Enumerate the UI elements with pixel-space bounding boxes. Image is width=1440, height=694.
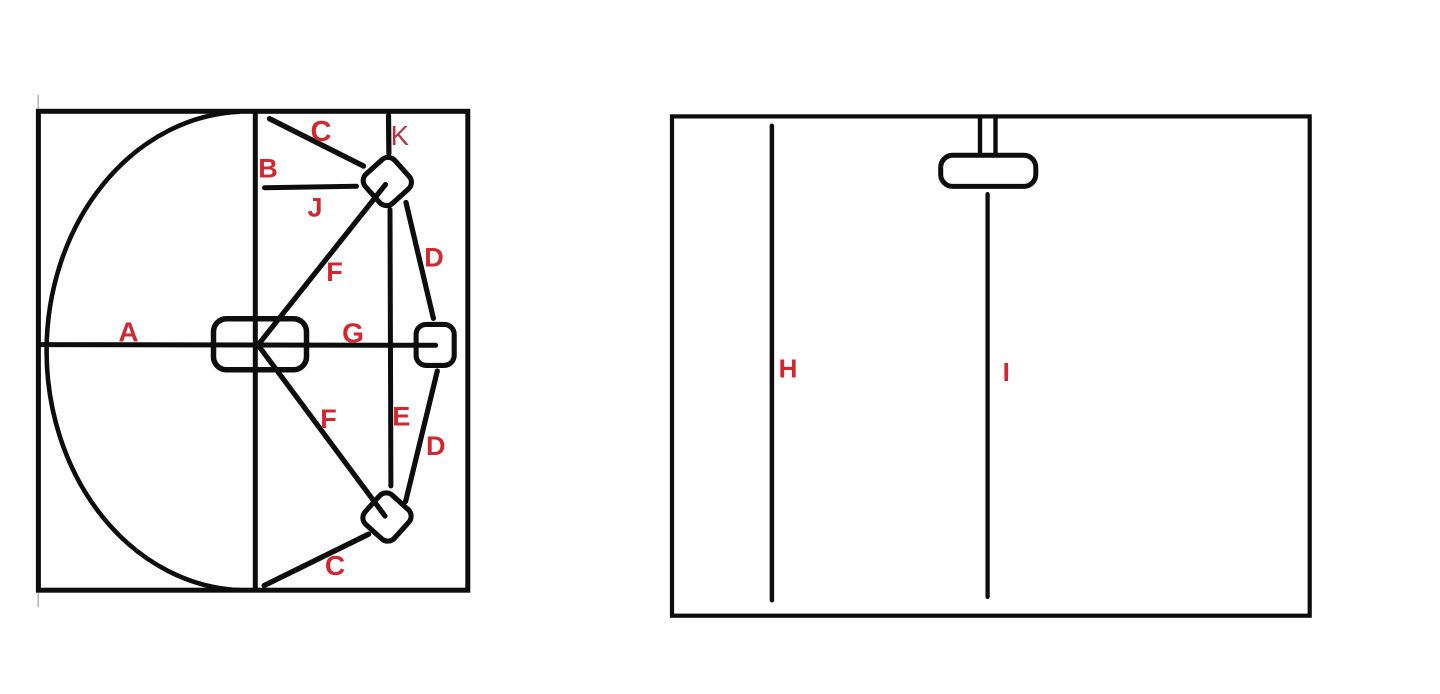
svg-text:B: B <box>258 153 278 183</box>
svg-text:J: J <box>308 192 323 222</box>
svg-text:F: F <box>320 404 337 434</box>
svg-text:A: A <box>118 317 138 348</box>
svg-text:H: H <box>779 354 798 384</box>
stray gray tick above top-left corner of left box <box>37 95 39 110</box>
wire E vertical <box>388 210 394 487</box>
wire H vertical <box>770 126 775 601</box>
svg-text:E: E <box>392 402 410 432</box>
wire D bottom <box>406 371 438 502</box>
top diamond node <box>359 154 415 210</box>
svg-text:F: F <box>326 257 343 287</box>
wire D top <box>406 203 433 319</box>
wire I vertical <box>985 194 989 597</box>
wire J <box>265 186 357 187</box>
svg-text:G: G <box>342 318 364 349</box>
vertical midline <box>253 112 258 591</box>
bottom diamond node <box>359 489 415 545</box>
wire A-G horizontal line <box>39 342 436 348</box>
central rounded rectangle node <box>214 319 307 370</box>
stem right line <box>993 117 997 158</box>
svg-text:D: D <box>426 431 446 461</box>
stray gray tick below bottom-left corner of left box <box>37 592 39 607</box>
stem left line <box>978 117 982 158</box>
svg-text:I: I <box>1003 357 1010 387</box>
svg-text:C: C <box>325 550 345 581</box>
left outer box <box>38 111 467 590</box>
wire F top diagonal <box>258 185 386 346</box>
wire F bottom diagonal <box>258 345 385 516</box>
wire C top <box>270 119 364 166</box>
svg-text:K: K <box>391 120 410 151</box>
svg-text:D: D <box>424 243 444 273</box>
wire C bottom <box>264 534 368 585</box>
top bar rounded rectangle <box>941 155 1036 186</box>
right outer box <box>672 116 1310 615</box>
wire K <box>386 116 392 154</box>
svg-text:C: C <box>311 116 332 148</box>
semicircle (left half ellipse) <box>47 112 240 591</box>
small square node right <box>416 324 454 365</box>
